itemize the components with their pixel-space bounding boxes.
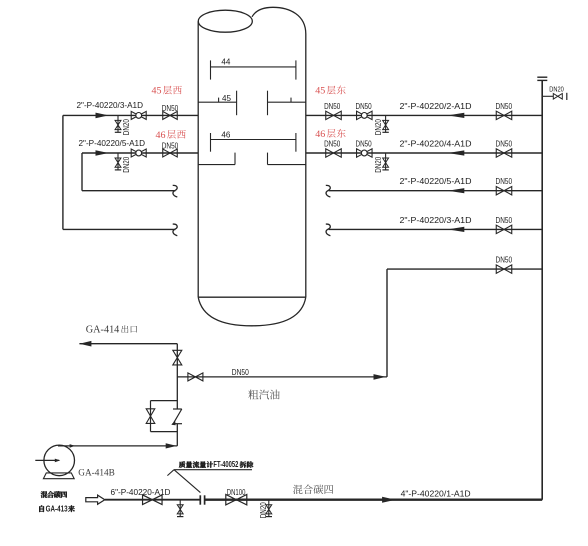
pipe 2"-P-40220/3-A1D east run from break (329, 228, 543, 230)
GA-414 outlet line (79, 343, 177, 345)
gate valve DN50 west 45 (163, 111, 178, 119)
pump discharge line (58, 445, 177, 447)
distillation column C-402 shell (198, 7, 306, 326)
svg-text:DN20: DN20 (122, 119, 131, 135)
flow arrow toward column (448, 227, 465, 232)
west stub of line /5 to break (82, 190, 176, 192)
pipe break squiggle (326, 185, 331, 197)
globe valve DN50 (357, 149, 373, 157)
flow arrow toward column (448, 188, 465, 193)
svg-text:DN20: DN20 (374, 119, 383, 135)
DN20 drain branch west 46 (117, 153, 119, 170)
header top blind (double dash) (537, 76, 547, 78)
pump base (43, 473, 74, 479)
flow arrow west 45 (96, 113, 109, 119)
svg-text:GA-414: GA-414 (86, 324, 120, 335)
feed source label hun he tan si (41, 491, 48, 498)
pipe 2"-P-40220/4-A1D east run (306, 152, 542, 154)
flow arrow west 46 (96, 150, 109, 156)
feed line 4 inch segment (205, 499, 543, 501)
svg-text:DN50: DN50 (232, 368, 250, 377)
DN50 return riser (386, 269, 388, 377)
svg-text:DN20: DN20 (122, 156, 131, 172)
pipe 2"-P-40220/5-A1D west riser (81, 153, 83, 191)
svg-text:46: 46 (315, 129, 325, 140)
gate valve DN50 at header (496, 187, 512, 195)
DN20 drain branch (179, 500, 181, 517)
pipe break squiggle (326, 224, 331, 236)
pipe 2"-P-40220/3-A1D west horizontal run (63, 114, 198, 116)
svg-text:45: 45 (315, 86, 325, 97)
check valve on riser (172, 409, 182, 424)
svg-text:44: 44 (221, 57, 230, 67)
svg-text:DN20: DN20 (374, 156, 383, 172)
svg-text:GA-413: GA-413 (46, 504, 69, 513)
gate valve on riser (173, 350, 182, 365)
svg-text:2"-P-40220/5-A1D: 2"-P-40220/5-A1D (400, 176, 472, 186)
svg-text:DN50: DN50 (162, 104, 179, 113)
flow arrow toward column (448, 113, 465, 118)
globe valve DN50 (357, 111, 373, 119)
pipe break squiggle (173, 185, 178, 197)
svg-text:DN50: DN50 (496, 139, 513, 148)
svg-text:45: 45 (152, 86, 162, 97)
naphtha branch line DN50 (177, 376, 387, 378)
pipe 2"-P-40220/3-A1D west riser (62, 115, 64, 229)
discharge arrow at riser (166, 443, 177, 448)
tray 46 (211, 133, 296, 152)
svg-text:DN50: DN50 (496, 177, 513, 186)
svg-text:2"-P-40220/3-A1D: 2"-P-40220/3-A1D (77, 100, 144, 110)
note mass flowmeter FT-40052 removed (179, 461, 185, 468)
riser from pump to outlet (lower) (176, 424, 178, 446)
svg-text:FT-40052: FT-40052 (213, 460, 238, 469)
feed line 6 inch segment (105, 499, 201, 501)
svg-text:DN100: DN100 (227, 488, 246, 497)
svg-text:45: 45 (222, 93, 231, 103)
flow arrow to header (374, 374, 387, 380)
svg-text:2"-P-40220/2-A1D: 2"-P-40220/2-A1D (400, 101, 472, 111)
pipe 2"-P-40220/5-A1D west horizontal run (82, 152, 198, 154)
feed source label from GA-413 (39, 505, 44, 512)
pipe break squiggle (173, 224, 178, 236)
svg-text:DN50: DN50 (496, 216, 513, 225)
svg-text:4"-P-40220/1-A1D: 4"-P-40220/1-A1D (401, 489, 471, 499)
svg-text:GA-414B: GA-414B (78, 468, 115, 479)
tray 46 downcomer aprons (198, 153, 306, 165)
gate valve bypass (146, 409, 155, 424)
globe valve west 45 (131, 111, 146, 119)
feed flow arrow (382, 497, 396, 503)
svg-text:DN20: DN20 (549, 85, 564, 94)
bypass loop top (151, 400, 178, 402)
bypass left leg (150, 401, 152, 432)
main header vertical (541, 80, 543, 500)
label hun he tan si (mixed C4) (293, 485, 303, 494)
riser from pump to outlet (upper) (176, 344, 178, 409)
gate valve naphtha branch (188, 373, 203, 381)
gate valve DN50 at column (326, 149, 342, 157)
gate valve DN50 west 46 (163, 149, 178, 157)
svg-text:46: 46 (221, 129, 230, 139)
gate valve DN50 at header (496, 225, 512, 233)
off-page open arrow (86, 495, 105, 504)
gate valve DN50 at column (326, 111, 342, 119)
pipe 2"-P-40220/2-A1D east run (306, 114, 542, 116)
gate valve DN50 return (496, 265, 512, 273)
gate valve 6 inch (143, 495, 163, 505)
DN20 vent branch (542, 95, 553, 97)
tray 44 (211, 60, 296, 79)
svg-text:DN20: DN20 (259, 502, 268, 518)
removed flow meter flanges (199, 495, 201, 504)
flow arrow toward column (448, 150, 465, 155)
svg-text:DN50: DN50 (324, 140, 341, 149)
gate valve DN50 at header (496, 149, 512, 157)
pump suction line (35, 459, 59, 461)
DN20 drain branch west 45 (117, 115, 119, 132)
globe valve west 46 (131, 149, 146, 157)
pipe 2"-P-40220/5-A1D east run from break (329, 190, 543, 192)
DN20 drain branch (268, 500, 270, 517)
svg-text:DN50: DN50 (496, 102, 513, 111)
suction arrow (55, 459, 60, 463)
DN20 drain branch (385, 153, 387, 170)
svg-text:46: 46 (156, 130, 166, 141)
pump GA-414B circle (44, 445, 75, 476)
tray 45 (split) (198, 91, 306, 116)
svg-text:DN50: DN50 (356, 102, 373, 111)
gate valve DN100 (226, 495, 247, 505)
DN20 drain branch (385, 115, 387, 132)
svg-text:DN50: DN50 (356, 140, 373, 149)
label cu qi you (naphtha) (248, 390, 258, 400)
svg-text:DN50: DN50 (496, 256, 513, 265)
note leader (174, 470, 200, 493)
svg-text:2"-P-40220/4-A1D: 2"-P-40220/4-A1D (400, 138, 472, 148)
west stub of line /3 to break (63, 228, 176, 230)
gate valve DN50 at header (496, 111, 512, 119)
bypass loop bottom (151, 431, 178, 433)
discharge arrow small (70, 444, 75, 448)
svg-text:2"-P-40220/5-A1D: 2"-P-40220/5-A1D (79, 138, 146, 148)
outlet flow arrow (79, 341, 91, 347)
DN50 return line to header (387, 268, 542, 270)
svg-text:DN50: DN50 (324, 102, 341, 111)
svg-text:2"-P-40220/3-A1D: 2"-P-40220/3-A1D (400, 215, 472, 225)
svg-text:DN50: DN50 (162, 141, 179, 150)
